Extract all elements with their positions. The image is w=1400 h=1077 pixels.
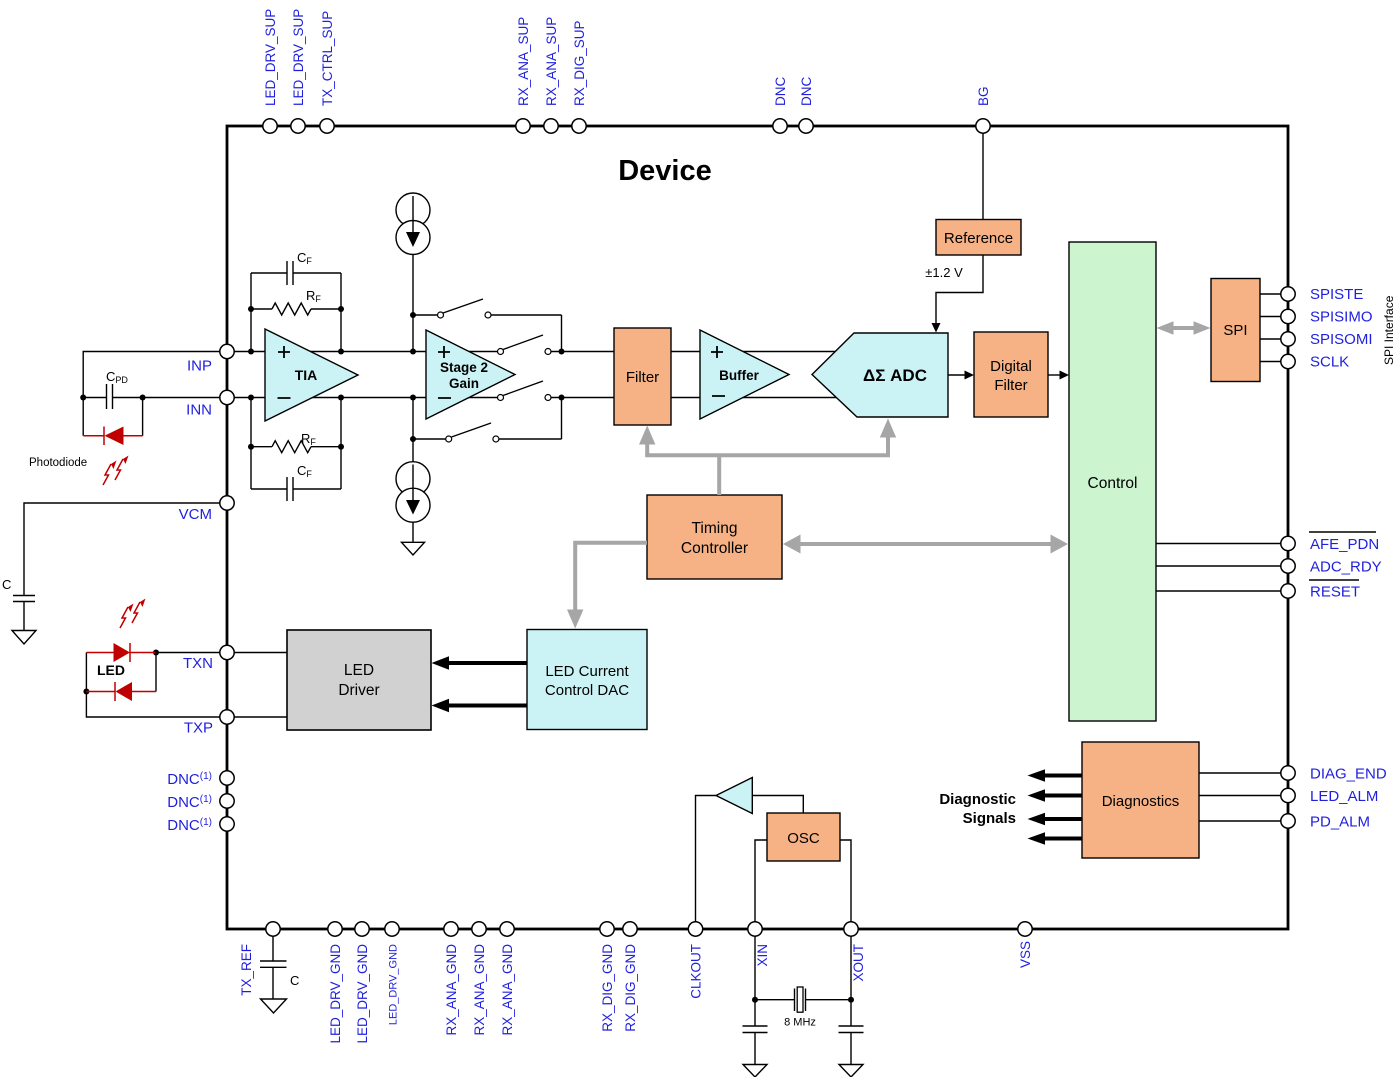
svg-text:BG: BG <box>976 86 991 106</box>
block LED Driver <box>287 630 431 730</box>
svg-text:LED_DRV_SUP: LED_DRV_SUP <box>291 9 306 106</box>
gray arrows Timing Controller to Filter and ADC <box>639 419 896 496</box>
svg-text:C: C <box>2 577 11 592</box>
svg-text:OSC: OSC <box>787 830 820 847</box>
wire XOUT <box>840 840 854 1003</box>
svg-text:LED_DRV_GND: LED_DRV_GND <box>355 944 370 1044</box>
pin CLKOUT <box>688 922 703 999</box>
label SPI Interface <box>1382 295 1396 365</box>
block Timing Controller <box>647 495 782 579</box>
pin LED_ALM <box>1281 788 1379 805</box>
label LED <box>97 662 125 678</box>
capacitor C (TX_REF) <box>260 934 299 999</box>
clock buffer U2 <box>716 778 752 814</box>
wire INP external loop <box>83 352 220 436</box>
wire CPD branch <box>80 395 220 401</box>
block Reference <box>936 220 1021 256</box>
capacitor XOUT load <box>839 1000 864 1065</box>
capacitor CPD <box>106 369 128 409</box>
svg-text:Filter: Filter <box>626 369 659 386</box>
svg-text:LED_ALM: LED_ALM <box>1310 788 1378 805</box>
block LED Current Control DAC <box>527 630 647 730</box>
light arrows from LED <box>120 599 146 629</box>
svg-text:SPI Interface: SPI Interface <box>1382 295 1396 365</box>
pin XOUT <box>844 922 866 982</box>
pin DNC top 1 <box>773 77 788 134</box>
capacitor CF (bottom) <box>251 463 341 501</box>
svg-text:Reference: Reference <box>944 230 1013 247</box>
pin AFE_PDN <box>1281 532 1379 553</box>
pin RX_DIG_GND 1 <box>600 922 615 1032</box>
wires Control to pins <box>1156 544 1288 592</box>
crystal Y1 8 MHz <box>755 987 851 1029</box>
pin DNC left 2 <box>167 794 234 811</box>
block Filter <box>614 328 671 425</box>
op-amp Stage 2 Gain <box>426 330 515 419</box>
svg-text:INP: INP <box>187 358 212 375</box>
gray arrow Timing Controller to LED DAC <box>567 543 647 629</box>
gray double arrow Control to SPI <box>1157 321 1211 334</box>
svg-text:VSS: VSS <box>1018 941 1033 968</box>
current source I1 (top) <box>396 193 430 352</box>
pin TX_CTRL_SUP <box>320 11 335 133</box>
pin BG <box>976 86 991 133</box>
pin RX_ANA_SUP 1 <box>516 17 531 133</box>
svg-text:Diagnostic: Diagnostic <box>939 791 1016 808</box>
wire buffer to OSC <box>752 796 803 814</box>
pin LED_DRV_SUP 2 <box>291 9 306 133</box>
device outline <box>227 126 1288 929</box>
svg-text:TX_REF: TX_REF <box>239 944 254 996</box>
svg-text:SCLK: SCLK <box>1310 354 1349 371</box>
block SPI <box>1211 279 1260 382</box>
svg-text:TXN: TXN <box>183 655 213 672</box>
block Digital Filter <box>974 332 1048 417</box>
svg-text:Device: Device <box>618 155 712 187</box>
pin INP <box>187 344 234 374</box>
current source I2 (bottom) <box>396 398 430 543</box>
pin DNC left 3 <box>167 817 234 834</box>
svg-text:RESET: RESET <box>1310 584 1360 601</box>
light arrows into photodiode <box>103 456 129 486</box>
wires SPI to pins <box>1260 294 1288 362</box>
wires Diagnostics to pins <box>1199 773 1288 821</box>
pin SPISIMO <box>1281 309 1373 326</box>
pin PD_ALM <box>1281 814 1370 831</box>
svg-text:LED: LED <box>97 662 125 678</box>
switch SW2 (INP row) <box>498 335 552 355</box>
svg-text:LED_DRV_SUP: LED_DRV_SUP <box>263 9 278 106</box>
svg-text:TIA: TIA <box>295 367 318 383</box>
pin VSS <box>1018 922 1033 968</box>
pin ADC_RDY <box>1281 559 1382 576</box>
svg-text:ΔΣ ADC: ΔΣ ADC <box>863 366 927 385</box>
TIA feedback bottom: leg wires <box>248 395 344 490</box>
pin SPISOMI <box>1281 331 1373 348</box>
arrow Digital Filter to Control <box>1048 371 1069 380</box>
wire TXP <box>83 653 287 718</box>
svg-text:DIAG_END: DIAG_END <box>1310 766 1387 783</box>
svg-text:XIN: XIN <box>755 944 770 967</box>
svg-text:Filter: Filter <box>994 377 1027 394</box>
wire XIN <box>752 840 767 1003</box>
svg-text:Stage 2: Stage 2 <box>440 360 488 375</box>
svg-text:Timing: Timing <box>692 520 738 537</box>
svg-text:DNC: DNC <box>799 77 814 106</box>
thick arrow DAC to LED Driver (lower) <box>432 699 528 712</box>
pin INN <box>186 390 234 418</box>
node dots stage2 rails <box>410 312 565 442</box>
pin RESET <box>1281 580 1360 601</box>
ground (current source) <box>402 542 425 555</box>
svg-text:C: C <box>290 973 299 988</box>
pin DIAG_END <box>1281 766 1387 783</box>
wire TXN <box>153 650 287 656</box>
pin DNC top 2 <box>799 77 814 134</box>
svg-text:Diagnostics: Diagnostics <box>1102 793 1180 810</box>
pin LED_DRV_SUP 1 <box>263 9 278 133</box>
op-amp Buffer <box>700 330 789 419</box>
label Diagnostic Signals <box>939 791 1016 827</box>
wire CLKOUT to clock buffer <box>696 796 717 923</box>
svg-text:CLKOUT: CLKOUT <box>689 944 704 999</box>
pin XIN <box>748 922 770 967</box>
arrow ADC to Digital Filter <box>948 371 974 380</box>
gray double arrow Timing Controller to Control <box>783 535 1068 554</box>
svg-text:DNC: DNC <box>773 77 788 106</box>
pin LED_DRV_GND 2 <box>355 922 370 1044</box>
LED D2 (top, TXN) <box>86 643 156 662</box>
pin LED_DRV_GND 3 <box>385 922 400 1025</box>
ground (VCM C) <box>12 631 36 645</box>
LED D3 (bottom) <box>86 653 156 702</box>
svg-text:VCM: VCM <box>179 506 212 523</box>
resistor RF (top) <box>251 288 341 315</box>
svg-text:RX_ANA_GND: RX_ANA_GND <box>472 944 487 1036</box>
switch SW1 (top row) <box>413 299 562 352</box>
wire photodiode leg <box>142 398 144 436</box>
ground (XIN cap) <box>743 1065 767 1077</box>
resistor RF (bottom) <box>251 431 341 453</box>
svg-text:RX_ANA_GND: RX_ANA_GND <box>500 944 515 1036</box>
pin LED_DRV_GND 1 <box>328 922 343 1044</box>
svg-text:AFE_PDN: AFE_PDN <box>1310 536 1379 553</box>
pin TXP <box>184 710 234 737</box>
pin RX_ANA_GND 3 <box>500 922 515 1036</box>
svg-text:LED_DRV_GND: LED_DRV_GND <box>328 944 343 1044</box>
svg-text:Buffer: Buffer <box>719 368 759 383</box>
ground (TX_REF C) <box>261 999 287 1013</box>
pin SCLK <box>1281 354 1349 371</box>
block OSC <box>767 813 840 861</box>
svg-text:TXP: TXP <box>184 720 213 737</box>
label Photodiode <box>29 457 87 469</box>
svg-text:8 MHz: 8 MHz <box>784 1017 816 1029</box>
svg-text:LED Current: LED Current <box>545 663 629 680</box>
pin VCM <box>179 496 235 523</box>
pin RX_DIG_GND 2 <box>623 922 638 1032</box>
wire BG to Reference <box>982 133 984 220</box>
capacitor XIN load <box>743 1000 768 1065</box>
pin RX_ANA_GND 1 <box>444 922 459 1036</box>
pin RX_ANA_GND 2 <box>472 922 487 1036</box>
pin RX_ANA_SUP 2 <box>544 17 559 133</box>
svg-text:SPISIMO: SPISIMO <box>1310 309 1373 326</box>
svg-text:RX_ANA_SUP: RX_ANA_SUP <box>516 17 531 106</box>
svg-text:Signals: Signals <box>963 810 1016 827</box>
op-amp TIA <box>265 329 358 421</box>
svg-text:SPISOMI: SPISOMI <box>1310 331 1373 348</box>
switch SW3 (INN row) <box>498 381 552 401</box>
switch SW4 (bottom row) <box>413 398 562 443</box>
svg-text:INN: INN <box>186 402 212 419</box>
svg-text:Photodiode: Photodiode <box>29 457 87 469</box>
capacitor C (VCM) <box>2 577 35 631</box>
pin SPISTE <box>1281 286 1364 303</box>
svg-text:Controller: Controller <box>681 540 748 557</box>
svg-text:XOUT: XOUT <box>851 944 866 982</box>
svg-text:Gain: Gain <box>449 376 479 391</box>
TIA feedback top: leg wires <box>248 273 344 355</box>
photodiode D1 <box>83 427 142 446</box>
block Diagnostics <box>1082 742 1199 858</box>
svg-text:LED_DRV_GND: LED_DRV_GND <box>388 944 400 1025</box>
svg-text:SPISTE: SPISTE <box>1310 286 1363 303</box>
svg-text:Digital: Digital <box>990 358 1032 375</box>
wire Reference to ADC with arrow <box>925 255 983 333</box>
svg-text:RX_DIG_SUP: RX_DIG_SUP <box>572 20 587 106</box>
svg-text:SPI: SPI <box>1223 322 1247 339</box>
capacitor CF (top) <box>251 250 341 285</box>
wire VCM external <box>24 503 220 596</box>
svg-text:RX_ANA_SUP: RX_ANA_SUP <box>544 17 559 106</box>
ground (XOUT cap) <box>839 1065 863 1077</box>
thick arrow DAC to LED Driver (upper) <box>432 656 528 669</box>
block Control <box>1069 242 1156 721</box>
ADC U1 delta-sigma <box>812 333 948 417</box>
pin RX_DIG_SUP <box>572 20 587 133</box>
svg-text:Driver: Driver <box>338 682 379 699</box>
svg-text:LED: LED <box>344 662 374 679</box>
svg-text:RX_DIG_GND: RX_DIG_GND <box>600 944 615 1032</box>
svg-text:±1.2 V: ±1.2 V <box>925 265 963 280</box>
wire INN rail <box>227 397 836 399</box>
svg-text:Control DAC: Control DAC <box>545 682 629 699</box>
pin DNC left 1 <box>167 771 234 788</box>
wire INP rail <box>227 351 842 353</box>
svg-text:RX_DIG_GND: RX_DIG_GND <box>623 944 638 1032</box>
svg-text:PD_ALM: PD_ALM <box>1310 814 1370 831</box>
pin TXN <box>183 645 234 672</box>
svg-text:Control: Control <box>1088 475 1138 492</box>
svg-text:ADC_RDY: ADC_RDY <box>1310 559 1382 576</box>
svg-text:TX_CTRL_SUP: TX_CTRL_SUP <box>320 11 335 106</box>
thick arrows Diagnostics signals <box>1028 769 1083 844</box>
svg-text:RX_ANA_GND: RX_ANA_GND <box>444 944 459 1036</box>
pin TX_REF <box>239 922 280 996</box>
